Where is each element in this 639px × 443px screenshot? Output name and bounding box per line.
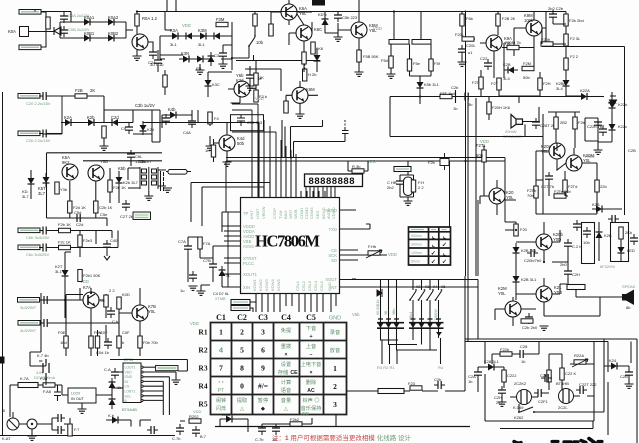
diode D2M — [116, 173, 123, 187]
svg-text:SD: SD — [331, 258, 337, 263]
svg-text:C2d: C2d — [111, 115, 119, 120]
capacitor C4B — [188, 117, 196, 128]
transistor QO2 — [536, 286, 552, 302]
svg-text:Y0L: Y0L — [498, 291, 506, 296]
svg-text:b: b — [122, 340, 125, 345]
ground R5F — [458, 62, 467, 66]
svg-text:LED: LED — [627, 248, 635, 253]
svg-text:PLCC: PLCC — [243, 261, 254, 266]
resistor R2Q — [94, 201, 98, 213]
svg-text:K.7 4b: K.7 4b — [37, 353, 49, 358]
ground JB — [387, 74, 396, 78]
resistor RF1 — [211, 145, 215, 157]
wire F rails — [162, 110, 210, 146]
svg-text:1K: 1K — [205, 148, 210, 153]
svg-text:F2H: F2H — [543, 81, 551, 86]
resistor RB2 inline row2 — [59, 245, 71, 249]
wire osc frame — [47, 153, 163, 226]
svg-text:70b: 70b — [98, 298, 105, 303]
capacitor C3C — [154, 56, 162, 67]
svg-text:VDD: VDD — [388, 252, 397, 257]
resistor R2P — [68, 201, 72, 213]
svg-text:VDDO: VDDO — [331, 207, 336, 219]
capacitor CS7 elec — [625, 368, 633, 379]
svg-text:3: 3 — [333, 400, 337, 409]
resistor R6C — [564, 34, 568, 46]
wire U3 pin2 gnd — [143, 372, 176, 380]
svg-text:50ms: 50ms — [411, 260, 420, 264]
resistor R3B vertical — [253, 14, 257, 26]
svg-text:Y0L: Y0L — [583, 158, 591, 163]
capacitor box C30 — [231, 115, 264, 131]
svg-text:✓: ✓ — [431, 250, 436, 257]
svg-text:F5f: F5f — [434, 61, 441, 66]
resistor RP1 — [104, 295, 108, 307]
wire CN2 link — [250, 294, 256, 313]
wire RR2 — [262, 418, 312, 428]
diode K2B — [84, 119, 98, 126]
keypad row labels — [198, 328, 207, 409]
svg-text:SPEAK: SPEAK — [622, 284, 636, 289]
wire T1 leads — [128, 168, 166, 196]
diode DR1 — [109, 395, 116, 409]
capacitor C3B — [246, 71, 254, 82]
resistor RB3 vertical — [78, 235, 82, 247]
svg-text:CE: CE — [290, 370, 298, 376]
transistor Q3B — [292, 87, 308, 103]
wire R6GH — [499, 72, 540, 103]
svg-text:K6M: K6M — [306, 87, 315, 92]
svg-text:C2B: C2B — [628, 148, 636, 153]
U1 left pins — [228, 212, 241, 287]
svg-text:F2Te 25b: F2Te 25b — [554, 189, 571, 194]
capacitor C22 — [39, 227, 50, 235]
capacitor CQ0 elec — [39, 359, 49, 377]
capacitor C4A — [162, 114, 170, 125]
svg-text:3b: 3b — [468, 102, 473, 107]
capacitor C0C — [149, 48, 157, 59]
wire Q8 pair — [536, 143, 597, 186]
ground QF1 — [223, 162, 232, 166]
capacitor C8C — [608, 215, 619, 223]
capacitor C21 — [39, 130, 50, 138]
transistor Q2A — [62, 164, 78, 180]
transformer T1 core — [140, 167, 158, 191]
resistor R8E horizontal — [554, 194, 566, 198]
capacitor CS6 — [576, 386, 587, 394]
option table row labels — [411, 234, 422, 264]
ground QO3 — [540, 326, 549, 330]
keypad column headers — [216, 313, 316, 322]
diode D8A — [592, 206, 606, 213]
svg-text:K7A: K7A — [83, 285, 91, 290]
wire Q nets — [10, 352, 112, 417]
resistor R6E horizontal — [507, 45, 519, 49]
svg-text:F2 2: F2 2 — [570, 54, 579, 59]
wire MK2 net — [549, 354, 594, 396]
svg-text:R5: R5 — [198, 400, 207, 409]
resistor R3H — [311, 42, 315, 54]
resistor RP5 — [117, 336, 121, 348]
svg-text:+: + — [309, 334, 312, 340]
svg-text:K24: K24 — [609, 358, 617, 363]
svg-text:F2b 1K: F2b 1K — [58, 222, 71, 227]
wire matrix to R labels — [382, 338, 441, 364]
capacitor C5B — [461, 93, 472, 101]
svg-text:F5e: F5e — [413, 61, 421, 66]
diode DO1 — [513, 243, 520, 257]
svg-text:⌞: ⌞ — [443, 250, 446, 257]
svg-text:下音: 下音 — [306, 324, 316, 332]
wire D6C — [591, 96, 604, 98]
zener diode triangle — [54, 27, 61, 35]
svg-text:C5e: C5e — [100, 212, 108, 217]
wire Q6 group — [480, 12, 546, 79]
svg-text:F3M: F3M — [216, 17, 225, 22]
svg-text:2 2: 2 2 — [109, 288, 115, 293]
capacitor C9A — [184, 242, 192, 253]
diode K0A1 — [80, 19, 94, 26]
svg-text:C2b 2.2u/16V: C2b 2.2u/16V — [26, 138, 51, 143]
resistor R2N — [108, 180, 112, 192]
diode K2C — [108, 119, 122, 126]
phone jack PJ1 — [7, 412, 19, 430]
svg-text:F2B 2K: F2B 2K — [502, 16, 516, 21]
wire QO nets — [495, 222, 560, 326]
capacitor C mid stub — [342, 120, 349, 137]
svg-text:KOW4: KOW4 — [270, 278, 275, 291]
resistor R5E horizontal — [440, 94, 452, 98]
svg-text:K3C: K3C — [212, 82, 220, 87]
svg-text:音量: 音量 — [281, 396, 291, 404]
diode tick marks g1 — [378, 318, 399, 320]
wire IC top to left components — [232, 104, 296, 160]
wire rect row rails — [43, 110, 133, 134]
svg-text:C0F: C0F — [100, 330, 108, 335]
wire box J — [585, 118, 598, 150]
wire TXD right — [352, 210, 370, 229]
diode D10A small — [377, 289, 382, 297]
capacitor C8B — [545, 172, 553, 183]
capacitor CR3 — [176, 424, 184, 435]
resistor RS6 — [410, 386, 422, 390]
crystal X1 — [404, 177, 413, 196]
svg-text:R22A: R22A — [574, 353, 584, 358]
U1 bottom pins — [256, 294, 336, 313]
switch SWS1 — [518, 407, 535, 413]
svg-text:0: 0 — [240, 382, 244, 391]
diode D6C right — [577, 93, 591, 100]
U1 right pins — [340, 210, 367, 287]
diode D6A — [504, 67, 518, 74]
svg-text:C22: C22 — [480, 56, 488, 61]
resistor R8F — [595, 180, 599, 192]
svg-text:BT4HB: BT4HB — [556, 381, 569, 386]
capacitor CQ1 — [54, 414, 65, 422]
svg-text:C6c 3u3/25V: C6c 3u3/25V — [26, 252, 49, 257]
diode K0B1 — [80, 35, 94, 42]
svg-text:F2M: F2M — [523, 61, 531, 66]
diode DS2 — [607, 363, 621, 370]
svg-text:K3N: K3N — [181, 51, 189, 56]
wire G1 — [337, 33, 339, 37]
svg-text:CSL2: CSL2 — [301, 280, 306, 291]
capacitor C24 — [40, 296, 51, 304]
wire DR2 — [106, 420, 151, 427]
wire J4 out — [40, 96, 104, 123]
wire D6B — [566, 90, 583, 96]
svg-text:TP: TP — [243, 211, 249, 216]
capacitor C2b cross — [453, 90, 459, 103]
wire bar net — [166, 171, 191, 173]
svg-text:F2c 1K: F2c 1K — [58, 240, 71, 245]
svg-text:C9: C9 — [121, 126, 127, 131]
resistor RO3 horizontal — [521, 319, 533, 323]
resistor RP3 — [64, 336, 68, 348]
switch SWM3 — [426, 289, 434, 301]
svg-text:10b: 10b — [583, 240, 590, 245]
diode D7A down — [609, 98, 616, 112]
svg-text:K2: K2 — [416, 285, 420, 289]
transistor QF1 — [219, 135, 235, 151]
wire nested bus L-turns — [381, 328, 439, 350]
wire RS7 — [347, 342, 466, 392]
diode D7B down — [609, 120, 616, 134]
wire R5F — [462, 12, 475, 50]
resistor R6K — [487, 102, 491, 114]
ground G1 — [334, 37, 343, 41]
svg-text:2C2K2: 2C2K2 — [514, 381, 527, 386]
connector stub left edge — [0, 357, 5, 364]
svg-text:暂停: 暂停 — [258, 396, 268, 404]
resistor R10B — [411, 180, 415, 192]
wire to right cluster — [133, 110, 152, 142]
svg-text:3L7: 3L7 — [22, 194, 29, 199]
svg-text:#/=: #/= — [258, 382, 268, 391]
resistor R3I — [302, 52, 306, 64]
wire R6I — [542, 28, 566, 44]
diode K2D vertical — [140, 121, 147, 135]
svg-text:K0A2: K0A2 — [108, 15, 119, 20]
keypad function keys (green) — [216, 324, 340, 412]
svg-text:VDD: VDD — [300, 411, 309, 416]
resistor RQ3 — [68, 424, 72, 436]
svg-text:C0d 1b: C0d 1b — [96, 350, 110, 355]
svg-text:C22b 7b: C22b 7b — [587, 124, 603, 129]
wire R8AB — [548, 112, 580, 148]
wire S top rails — [465, 276, 637, 443]
capacitor CO5 — [573, 220, 581, 231]
capacitor CR6 — [272, 424, 280, 435]
svg-text:F20H 1K6: F20H 1K6 — [492, 105, 511, 110]
capacitor CS4 — [534, 389, 545, 397]
transistor Q8C — [489, 188, 505, 204]
wire U3 pin1 — [143, 366, 155, 368]
watermark glyph strokes bottom right — [514, 439, 602, 443]
diode D3I — [314, 51, 321, 65]
connector J5 — [18, 131, 40, 136]
capacitor C8A — [532, 118, 540, 129]
capacitor CQ2 — [54, 426, 65, 434]
wire C9A — [188, 212, 228, 282]
svg-text:CSL3: CSL3 — [307, 280, 312, 291]
wire Q5A — [338, 12, 359, 73]
diode D2L — [43, 173, 50, 187]
resistor R3D lower — [254, 90, 258, 102]
svg-text:1b: 1b — [272, 437, 277, 442]
capacitor C10A — [396, 177, 404, 188]
svg-text:BT9A4B: BT9A4B — [122, 407, 137, 412]
top centre page mark — [312, 0, 325, 6]
svg-text:2b2 C2b: 2b2 C2b — [548, 6, 564, 11]
microphone MK1 — [517, 390, 532, 405]
transistor Q0 — [132, 34, 148, 50]
capacitor CO7 — [630, 234, 638, 245]
resistor R6D — [564, 58, 568, 70]
svg-text:C20 2.2u/16V: C20 2.2u/16V — [26, 101, 51, 106]
svg-text:K22b: K22b — [618, 102, 628, 107]
svg-text:2Kb: 2Kb — [625, 230, 633, 235]
keypad digit keys — [219, 328, 337, 410]
svg-text:F20M 7b: F20M 7b — [505, 40, 522, 45]
svg-text:1K: 1K — [259, 75, 264, 80]
resistor R5D — [429, 59, 433, 71]
capacitor C6B — [484, 59, 492, 70]
resistor R10A horizontal top — [352, 169, 364, 173]
wire R3B top — [254, 12, 256, 15]
wire R10A — [348, 161, 368, 171]
wire R3J — [158, 50, 165, 95]
capacitor C2N — [122, 200, 130, 211]
keypad table KB1 grid — [211, 323, 347, 415]
svg-text:⊘: ⊘ — [2, 408, 5, 413]
wire D2K — [30, 170, 32, 199]
svg-text:C3: C3 — [258, 313, 268, 322]
wire C9B — [200, 246, 228, 282]
resistor R5G small — [462, 37, 474, 41]
wire P nets — [41, 288, 140, 352]
svg-text:VDD: VDD — [193, 409, 202, 414]
ground X1 — [404, 201, 413, 205]
resistor R8D — [563, 180, 567, 192]
capacitor C3A — [219, 49, 227, 60]
svg-text:⌞: ⌞ — [443, 233, 446, 240]
svg-text:✓: ✓ — [431, 259, 436, 266]
svg-text:✓: ✓ — [442, 242, 447, 249]
svg-text:R3 R2 R1: R3 R2 R1 — [377, 365, 395, 370]
capacitor CS5 — [541, 374, 552, 382]
capacitor C5L upper — [127, 150, 135, 161]
diode D6B down — [563, 76, 570, 90]
label matrix codes g2 — [409, 309, 438, 320]
capacitor C0A — [60, 12, 68, 23]
svg-text:50b: 50b — [523, 75, 530, 80]
resistor RR1 — [189, 419, 201, 423]
svg-text:C7A: C7A — [178, 239, 186, 244]
ground osc out — [163, 188, 172, 192]
wire BT nets — [599, 222, 621, 261]
diode K0A2 — [104, 19, 118, 26]
svg-text:重拨: 重拨 — [281, 342, 292, 350]
ground PJ — [28, 436, 37, 440]
resistor RS1 horizontal — [500, 352, 512, 356]
svg-text:5: 5 — [240, 346, 244, 355]
svg-text:F0E: F0E — [58, 330, 66, 335]
diode D3G — [208, 52, 215, 66]
connector J8 — [18, 298, 40, 303]
resistor RP6 — [138, 336, 142, 348]
svg-text:CSL1: CSL1 — [295, 280, 300, 291]
wire right edge K — [536, 180, 622, 209]
svg-text:C.7b: C.7b — [172, 436, 181, 441]
resistor R3F vertical — [303, 69, 307, 81]
capacitor C23 — [39, 244, 50, 252]
resistor R5C — [407, 59, 411, 71]
svg-text:注：1 用户可根据需要适当更改相模 化线路 设计: 注：1 用户可根据需要适当更改相模 化线路 设计 — [272, 433, 412, 442]
svg-text:C4 D7 6L: C4 D7 6L — [213, 292, 229, 296]
svg-text:R.3b: R.3b — [352, 164, 361, 169]
resistor RO2 long horizontal — [567, 285, 585, 290]
diode bus bar group2 — [409, 323, 444, 329]
capacitor C2e — [125, 123, 133, 134]
svg-text:88888888: 88888888 — [309, 176, 355, 187]
diode D3E — [179, 56, 193, 63]
resistor R6G — [497, 78, 501, 90]
svg-text:50b: 50b — [237, 141, 245, 146]
resistor R3E — [284, 101, 288, 113]
keypad star PT key — [218, 381, 224, 394]
wire MK1 — [510, 396, 538, 398]
svg-text:C2b: C2b — [540, 373, 548, 378]
svg-text:铃声 ◎: 铃声 ◎ — [302, 396, 319, 404]
svg-text:R2: R2 — [198, 346, 207, 355]
svg-text:XOUT1: XOUT1 — [243, 272, 258, 277]
connector J3 square — [20, 27, 29, 37]
svg-text:录音: 录音 — [330, 328, 340, 336]
capacitor CO6 — [583, 227, 591, 238]
svg-text:C2d: C2d — [76, 222, 83, 227]
svg-text:3B: 3B — [384, 310, 388, 315]
svg-text:3L4: 3L4 — [556, 86, 563, 91]
wire R3F dashed feed — [304, 56, 306, 69]
resistor RP4 — [89, 336, 93, 348]
svg-text:u1: u1 — [468, 50, 473, 55]
svg-text:R3: R3 — [198, 364, 207, 373]
diode tick marks g2 — [411, 318, 442, 320]
svg-text:K3d: K3d — [236, 78, 244, 83]
svg-text:3L1: 3L1 — [55, 269, 62, 274]
resistor RO1 — [514, 224, 518, 236]
battery box BT1 — [582, 223, 595, 264]
svg-text:K2B: K2B — [604, 233, 612, 238]
diode DO4 LED — [618, 243, 625, 257]
wire DB1 vertical — [65, 252, 71, 318]
svg-text:VROW: VROW — [261, 206, 266, 219]
svg-text:C2b: C2b — [451, 85, 459, 90]
svg-text:3: 3 — [261, 328, 265, 337]
resistor R3J — [163, 75, 167, 87]
connector J1 — [19, 10, 41, 15]
svg-text:上音: 上音 — [306, 342, 316, 350]
option table header dashes — [411, 229, 447, 231]
svg-text:1b: 1b — [521, 359, 526, 364]
U1 left pin labels — [243, 211, 258, 290]
wire QO2 out to speaker — [544, 297, 622, 316]
ground L1 — [189, 286, 198, 290]
svg-text:SEG: SEG — [315, 211, 320, 219]
switch SWM2 — [418, 289, 426, 301]
svg-text:C40: C40 — [110, 238, 118, 243]
